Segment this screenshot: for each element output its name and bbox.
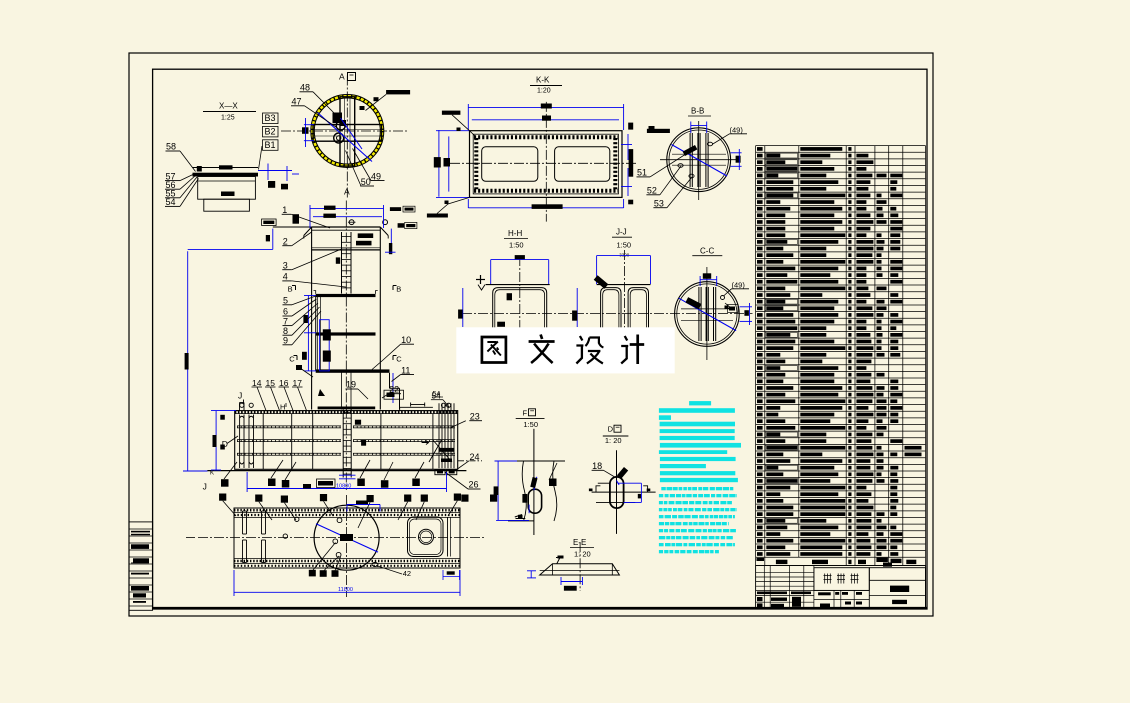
mid arrow mark <box>422 441 429 445</box>
C-C internal tubes <box>698 287 700 341</box>
svg-text:18: 18 <box>592 461 602 471</box>
plan vertical centreline <box>346 495 348 597</box>
column weld symbol C level <box>296 365 302 370</box>
svg-text:10: 10 <box>401 335 411 345</box>
svg-text:50: 50 <box>361 177 371 187</box>
svg-text:H: H <box>280 403 285 412</box>
K-K blue dims left <box>438 130 440 197</box>
plan blue diagonal <box>316 524 378 552</box>
B-B internal tubes <box>689 133 691 187</box>
svg-text:22: 22 <box>389 385 399 395</box>
view A centre weld blobs <box>333 113 343 124</box>
svg-text:4: 4 <box>283 272 288 282</box>
B-B right dim <box>736 156 741 163</box>
X-X flange plate (section) <box>193 167 259 169</box>
tall blue dimension far left <box>187 251 189 471</box>
base vertical stiffeners <box>262 414 264 470</box>
weld mark on ladder <box>336 257 340 263</box>
base left pipes <box>239 415 241 469</box>
inner border frame <box>153 69 927 609</box>
plan leaders from callout blobs <box>223 501 236 516</box>
svg-text:8: 8 <box>283 326 288 336</box>
left boxed label 250 <box>262 219 277 226</box>
C-C blue diagonal <box>679 298 736 330</box>
view D centreline <box>616 450 618 534</box>
K-K right opening <box>555 147 610 182</box>
column mid weld band 1 <box>316 294 376 297</box>
column inner blue box <box>320 320 330 371</box>
svg-text:23: 23 <box>470 412 480 422</box>
dim blobs right of ladder <box>358 233 374 238</box>
ladder bottom blue ticks <box>339 474 356 476</box>
svg-text:B: B <box>288 284 293 293</box>
base top posts <box>239 403 241 411</box>
svg-text:5: 5 <box>283 296 288 306</box>
plan right divider <box>447 517 449 557</box>
view F blue dims <box>497 461 499 520</box>
H-H channel <box>493 288 547 340</box>
K-K blue dims bottom <box>468 207 623 209</box>
C-C inner dim box <box>728 305 739 313</box>
B-B small hole markers <box>707 142 712 146</box>
svg-text:14: 14 <box>252 378 262 388</box>
main column centreline <box>345 201 347 491</box>
cyan highlighted note bars <box>689 401 711 405</box>
K-K weld seam right <box>613 138 617 190</box>
K-K weld seam left <box>474 138 478 190</box>
X-X body box <box>198 177 256 200</box>
step blue vertical <box>392 373 394 403</box>
svg-text:16: 16 <box>279 378 289 388</box>
dim 800 right <box>447 571 455 574</box>
view F slot blue marks <box>528 505 530 514</box>
J-J channels <box>601 288 621 340</box>
svg-text:E-E: E-E <box>573 538 586 547</box>
svg-text:3: 3 <box>283 260 288 270</box>
view F left blob <box>522 494 527 503</box>
svg-text:1:50: 1:50 <box>617 241 632 250</box>
B-B blue diagonal <box>672 145 728 177</box>
plan centreline horizontal <box>198 537 484 539</box>
base right pipes <box>438 403 440 468</box>
svg-text:2: 2 <box>283 236 288 246</box>
view A top right weld label <box>386 90 410 94</box>
base diagonal braces right <box>433 440 452 462</box>
K-K blue dims top <box>468 107 623 109</box>
left strip text bars <box>131 531 150 533</box>
plan centre weld blob <box>340 534 353 541</box>
svg-text:7: 7 <box>283 316 288 326</box>
view A hub circles <box>336 121 345 130</box>
callout 1 blob <box>293 214 300 224</box>
E-E top mark <box>556 558 563 564</box>
svg-text:10800: 10800 <box>336 483 351 489</box>
column mid weld band 3 <box>316 369 390 372</box>
svg-text:6: 6 <box>283 307 288 317</box>
svg-text:J: J <box>203 482 207 492</box>
right pipe top circles <box>441 403 445 407</box>
callout blobs below base row1 <box>221 479 229 487</box>
left pipe top circles <box>240 403 244 407</box>
C-C crosshair <box>706 267 708 360</box>
main column outline <box>311 227 313 410</box>
X-X dim blobs <box>219 165 233 169</box>
watermark white box <box>456 327 674 373</box>
svg-text:B2: B2 <box>265 126 276 136</box>
svg-text:19: 19 <box>346 380 356 390</box>
svg-text:H-H: H-H <box>508 229 522 238</box>
column blue left dim <box>307 296 309 371</box>
svg-text:1:50: 1:50 <box>509 241 524 250</box>
long horizontal centreline <box>462 313 753 315</box>
inner frame thick bottom edge <box>153 607 927 610</box>
svg-text:B: B <box>396 284 401 293</box>
view A cross beam vertical <box>340 97 355 166</box>
E-E centreline <box>579 542 581 590</box>
watermark text tu-wen-she-ji <box>482 337 506 363</box>
base outline <box>235 411 458 470</box>
svg-text:B1: B1 <box>265 140 276 150</box>
column top lifting circles <box>349 220 354 225</box>
view A left dim <box>302 127 309 134</box>
svg-text:J: J <box>238 391 242 401</box>
column inner detail blobs <box>323 329 331 340</box>
plan dim 1500 top <box>347 504 380 506</box>
svg-text:C: C <box>396 355 402 364</box>
plan lower blobs <box>309 570 316 577</box>
svg-text:D: D <box>608 425 614 434</box>
right dim bracket <box>411 404 425 406</box>
boxed label below base <box>317 479 336 488</box>
base left blue dim <box>215 411 217 470</box>
svg-text:(49): (49) <box>730 126 744 135</box>
svg-text:52: 52 <box>647 186 657 196</box>
base bottom blue dim 10800 <box>247 488 446 490</box>
svg-text:48: 48 <box>300 83 310 93</box>
svg-text:1:25: 1:25 <box>221 115 235 122</box>
title block name text (welded parts) <box>824 574 832 584</box>
K-K weld seam bottom <box>474 189 618 193</box>
title block left bars <box>757 592 787 595</box>
view A centrelines <box>346 76 348 198</box>
view D corner marks <box>596 486 600 492</box>
K-K blue dims right <box>627 134 629 160</box>
column upper flange line <box>312 249 381 251</box>
view D blue bracket <box>617 482 641 484</box>
view D slot <box>610 477 624 508</box>
svg-text:17: 17 <box>293 378 303 388</box>
view F weld blob <box>530 477 537 488</box>
view D weld blob <box>617 467 628 479</box>
svg-text:1: 20: 1: 20 <box>605 436 622 445</box>
H-H dim blobs <box>515 255 525 259</box>
outer border frame <box>129 53 933 616</box>
title block outline <box>756 566 926 609</box>
B-B weld blob <box>683 145 698 156</box>
H-H top plate line <box>486 284 550 286</box>
base right step <box>400 406 433 408</box>
column top blue dims <box>310 207 384 209</box>
parts list table <box>756 146 926 558</box>
column right rotated dim 1510 <box>390 229 392 253</box>
X-X right blue dims <box>258 170 292 172</box>
svg-text:51: 51 <box>637 168 647 178</box>
base internal line hatch <box>237 426 341 428</box>
base top hatch <box>235 411 458 414</box>
K-K left opening <box>482 147 538 182</box>
C-C right dim <box>744 310 749 316</box>
svg-text:42: 42 <box>403 569 411 578</box>
callout blobs row2 (plan view callouts) <box>219 494 226 501</box>
base footpads <box>435 470 445 475</box>
J-J top plate line <box>597 284 651 286</box>
J-J centreline vertical <box>624 250 626 340</box>
K-K corner leader top-left <box>442 111 461 115</box>
B-B upper-left weld label <box>647 129 670 133</box>
svg-text:15: 15 <box>266 378 276 388</box>
B-B crosshair <box>698 121 700 200</box>
svg-text:B-B: B-B <box>691 107 704 116</box>
title block name box <box>814 568 869 591</box>
E-E dim blob <box>564 586 577 591</box>
B-B top blue dim <box>691 124 707 126</box>
svg-text:A: A <box>339 72 345 82</box>
view F centreline <box>533 429 535 535</box>
view F slot <box>528 489 541 513</box>
E-E blue dims <box>530 571 532 578</box>
K-K dim text blobs <box>541 104 552 109</box>
right pipe weld blob row <box>439 448 455 452</box>
base inner blobs <box>355 420 361 425</box>
view F break strip wavy lines <box>522 461 526 521</box>
svg-text:K: K <box>210 471 214 477</box>
svg-text:11: 11 <box>401 365 410 375</box>
svg-text:11800: 11800 <box>338 587 353 593</box>
title block right cells <box>869 568 925 609</box>
view F bottom arrow marks <box>515 515 526 519</box>
title block left grid <box>756 571 814 573</box>
base middle ladder <box>342 410 344 478</box>
title block mid lower cells <box>814 589 869 591</box>
K-K outer rect <box>470 131 623 198</box>
H-H blue dims <box>491 259 549 261</box>
svg-text:26: 26 <box>469 480 479 490</box>
svg-text:F: F <box>523 408 528 417</box>
B-B circles <box>667 128 731 192</box>
X-X lower plate <box>204 199 250 211</box>
view A blue diagonals <box>318 113 373 162</box>
column top right labels <box>390 207 401 211</box>
C-C weld blob <box>685 297 701 309</box>
svg-text:C-C: C-C <box>700 247 714 256</box>
svg-text:1:20: 1:20 <box>537 88 551 95</box>
svg-text:J-J: J-J <box>616 228 627 237</box>
column step right <box>389 373 391 389</box>
plan leaders lower <box>313 543 336 571</box>
plan top hatched band <box>234 512 460 514</box>
svg-text:54: 54 <box>166 197 176 207</box>
K-K corner leader bottom-left <box>427 214 448 218</box>
view F bottom line <box>508 520 534 522</box>
parts table last tall row <box>756 565 926 567</box>
column top extension lines <box>273 226 312 228</box>
H-H centreline vertical <box>519 256 521 340</box>
left blue dim vertical <box>272 229 274 250</box>
svg-text:B3: B3 <box>265 113 276 123</box>
svg-text:1: 20: 1: 20 <box>574 550 591 559</box>
ladder centre lower <box>341 371 343 410</box>
parts table text bars <box>757 147 763 151</box>
leaders from blobs into base <box>224 462 237 479</box>
plan view outline <box>234 508 460 568</box>
plan bolt holes <box>337 518 342 523</box>
svg-text:58: 58 <box>166 142 176 152</box>
cyan note text lines <box>661 487 666 490</box>
svg-text:1: 1 <box>282 205 287 215</box>
base internal horizontal lines <box>237 425 341 427</box>
C-C circles <box>675 282 740 347</box>
view A cross beam horizontal <box>313 125 381 142</box>
J-J blue dims <box>597 255 651 257</box>
svg-text:X—X: X—X <box>219 102 238 111</box>
K-K weld seam top <box>474 135 618 139</box>
view D horizontal lines <box>592 491 656 493</box>
svg-text:49: 49 <box>371 171 381 181</box>
svg-text:47: 47 <box>292 97 302 107</box>
svg-text:24: 24 <box>470 452 480 462</box>
svg-text:K-K: K-K <box>536 76 550 85</box>
plan bottom hatched band <box>234 558 460 560</box>
svg-text:9: 9 <box>283 336 288 346</box>
svg-text:1:50: 1:50 <box>523 420 538 429</box>
plan big circle <box>314 505 379 570</box>
column mid weld band 2 <box>316 332 376 335</box>
left margin revision strip <box>129 522 153 610</box>
K-K centrelines <box>450 162 638 164</box>
base ground line <box>207 470 466 472</box>
E-E plate shape <box>540 564 620 575</box>
plan left slot pairs <box>242 511 244 534</box>
svg-text:(49): (49) <box>732 281 746 290</box>
H-H weld cross mark <box>476 279 485 281</box>
C-C top blob and dim <box>703 273 711 279</box>
leader from B1 to plate <box>259 146 263 170</box>
view D slot blue tick <box>617 481 620 485</box>
column bottom flange plate <box>318 407 376 410</box>
K-K inner rect <box>473 134 618 194</box>
plan manhole rounded square <box>408 517 444 557</box>
svg-text:53: 53 <box>654 199 664 209</box>
svg-text:D: D <box>222 439 228 449</box>
step detail box <box>384 390 404 399</box>
column top chamfers <box>304 227 312 236</box>
J-J dim blobs <box>572 311 577 321</box>
view F top line <box>517 460 565 462</box>
column ladder upper <box>341 232 343 294</box>
view A yellow hatched ring <box>313 96 383 166</box>
column inner left box <box>315 296 317 371</box>
plan bottom blue dim 11800 <box>234 591 460 593</box>
